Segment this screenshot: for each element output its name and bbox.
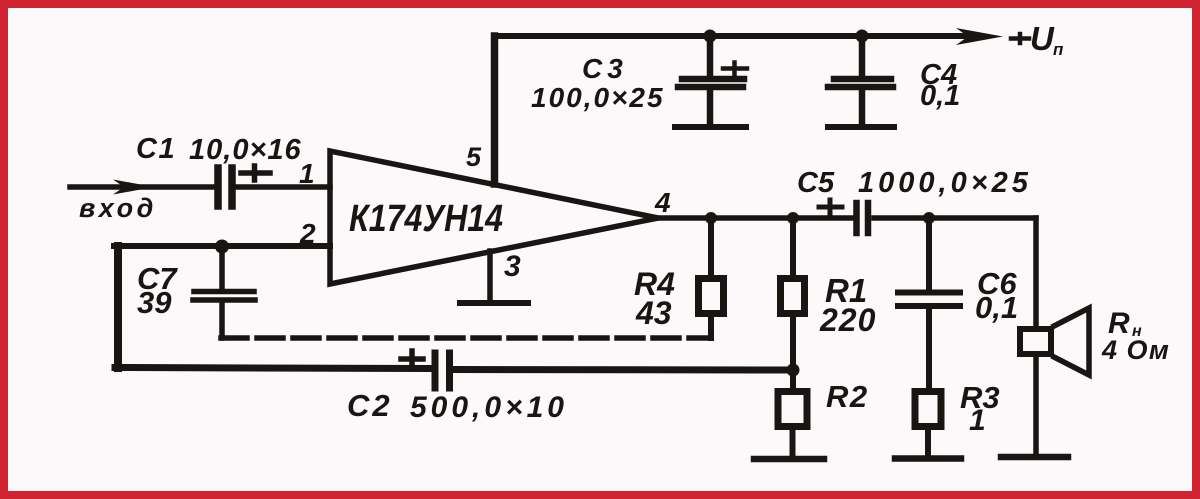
svg-text:вход: вход [79,193,157,223]
R1 value 220 [819,302,876,338]
ground R3 [895,455,961,462]
svg-text:1: 1 [299,158,315,189]
R2 label [826,379,869,414]
svg-text:C1: C1 [136,133,176,165]
wire top rail [494,33,965,39]
C7 label [137,261,178,296]
C3 plus sign [723,63,747,75]
wire bottom feedback [115,368,793,371]
C1 plus sign [241,166,270,180]
svg-text:2: 2 [299,218,316,249]
U1 label [349,198,503,240]
svg-text:C3: C3 [582,53,628,84]
R3 value 1 [969,404,986,437]
node junction C6 [923,212,935,224]
input arrowhead [113,180,154,195]
pin 2 label [299,218,316,249]
C5 value 1000,0x25 [858,167,1032,199]
svg-text:К174УН14: К174УН14 [349,198,503,240]
wire left vertical [114,246,122,368]
svg-text:4: 4 [654,187,671,218]
wire speaker vertical [1033,218,1039,453]
C5 label [797,167,835,199]
wire dashed feedback [221,335,707,341]
svg-text:39: 39 [137,285,172,320]
wire input line [70,184,330,190]
pin 5 label [466,142,482,172]
svg-text:3: 3 [504,250,521,283]
pin 4 label [654,187,671,218]
pin 5 wire [491,36,499,184]
resistor R3 [915,392,941,456]
pin 2 wire [114,243,330,249]
ground speaker [1001,454,1068,461]
node junction R4 [705,212,717,224]
C7 value 39 [137,285,172,320]
capacitor C6 [898,218,960,388]
C1 label [136,133,176,165]
rail arrowhead [956,28,1003,45]
capacitor C3 [678,36,744,124]
speaker label Rn [1108,307,1142,340]
resistor R2 [778,370,807,456]
R4 label [634,266,675,302]
speaker value 4 Ом [1101,335,1170,365]
C2 label [347,388,393,423]
node +Un label [1011,20,1064,59]
capacitor C5 [857,203,869,233]
C5 plus sign [819,200,842,215]
svg-text:0,1: 0,1 [975,290,1018,325]
resistor R1 [781,218,805,370]
svg-text:100,0×25: 100,0×25 [531,82,665,113]
svg-text:220: 220 [819,302,876,338]
C3 label [582,53,628,84]
capacitor C7 [193,246,255,338]
pin 1 label [299,158,315,189]
svg-text:C2: C2 [347,388,393,423]
C4 value 0,1 [920,80,960,112]
capacitor C1 [218,168,232,206]
node junction R1 [787,212,799,224]
C4 label [920,59,957,91]
svg-text:R2: R2 [826,379,869,414]
svg-text:C5: C5 [797,167,835,199]
svg-text:5: 5 [466,142,482,172]
node junction C3 top [704,30,717,43]
node junction C4 top [856,30,869,43]
resistor R4 [699,218,724,338]
capacitor C2 [435,353,450,388]
C1 value 10,0x16 [189,134,302,166]
svg-text:4 Ом: 4 Ом [1101,335,1170,365]
ground pin3 [460,300,528,306]
pin 3 label [504,250,521,283]
wire output [656,215,1036,221]
svg-text:10,0×16: 10,0×16 [189,134,302,166]
ground C4 [828,124,894,130]
node junction R2 [787,364,800,377]
svg-text:U: U [1030,20,1055,57]
svg-text:1000,0×25: 1000,0×25 [858,167,1032,199]
C3 value 100,0x25 [531,82,665,113]
node junction C7 [215,240,229,254]
R1 label [825,272,867,309]
svg-text:500,0×10: 500,0×10 [410,391,568,424]
pin 3 wire [487,251,493,301]
svg-text:1: 1 [969,404,986,437]
speaker Rn [1020,308,1089,375]
R4 value 43 [635,295,672,331]
ground R2 [754,456,824,463]
ground C3 [675,124,746,130]
svg-text:0,1: 0,1 [920,80,960,112]
C6 value 0,1 [975,290,1018,325]
C2 plus sign [401,351,423,367]
capacitor C4 [828,36,893,124]
C2 value 500,0x10 [410,391,568,424]
node вход label [79,193,157,223]
R3 label [960,380,1000,415]
op-amp U1 К174УН14 [330,151,658,284]
C6 label [977,266,1017,301]
svg-text:43: 43 [635,295,672,331]
svg-text:п: п [1053,40,1064,59]
